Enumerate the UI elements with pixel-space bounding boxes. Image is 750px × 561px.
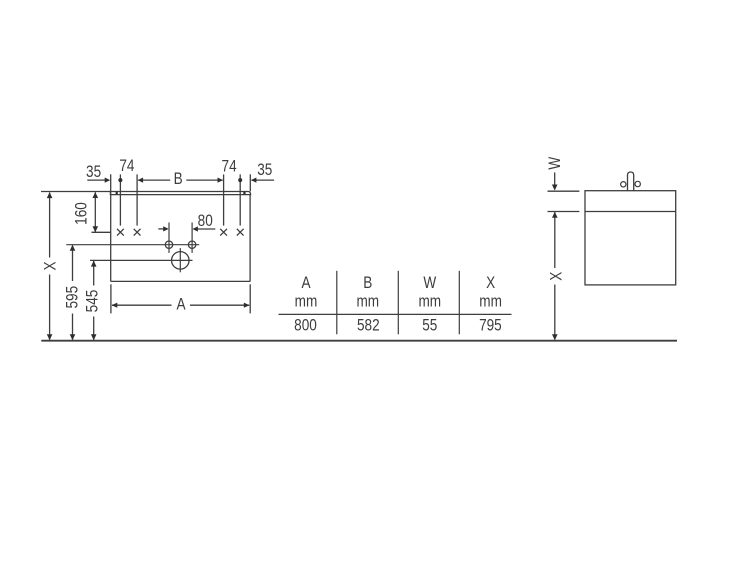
faucet hole centerline right [191, 223, 193, 253]
svg-text:160: 160 [72, 202, 91, 225]
cabinet bottom [111, 280, 251, 282]
dim A right arrow [244, 303, 250, 308]
dim 35 left line [87, 179, 106, 181]
svg-text:35: 35 [86, 162, 101, 181]
dim 80 right line [197, 228, 216, 230]
dim 545 bottom arrow [91, 334, 97, 340]
table divider 2 [397, 271, 399, 335]
dim 595 line lower [72, 314, 74, 340]
svg-text:A: A [176, 295, 186, 314]
svg-text:B: B [174, 170, 183, 189]
svg-text:W: W [546, 156, 565, 169]
dim X right top arrow [552, 212, 558, 218]
fixing bolt line 3 [223, 174, 225, 225]
dim 545 line upper [93, 261, 95, 286]
svg-text:mm: mm [295, 292, 318, 311]
dim W line [554, 172, 556, 186]
svg-text:795: 795 [479, 316, 502, 335]
dim A left extension [110, 284, 112, 313]
dim 160 bottom tick [92, 231, 112, 233]
fixing cross 3 [220, 229, 227, 236]
svg-text:800: 800 [294, 316, 317, 335]
dim A left arrow [112, 303, 118, 308]
dim 160 bottom arrow [93, 226, 99, 232]
right bracket mark [243, 192, 245, 195]
dim 80 left line [158, 228, 164, 230]
dim A right extension [249, 284, 251, 313]
side view cabinet [585, 191, 676, 285]
fixing cross 1 [117, 229, 124, 236]
cabinet right edge + extension [249, 174, 251, 191]
table divider 3 [458, 271, 460, 335]
svg-text:55: 55 [422, 316, 437, 335]
svg-text:mm: mm [479, 292, 502, 311]
faucet body [628, 172, 634, 191]
faucet handle left [621, 182, 626, 187]
table header rule [279, 313, 512, 315]
dim 35 right arrow [251, 178, 257, 183]
side view divider extension line [548, 211, 580, 213]
dim X left bottom arrow [47, 334, 53, 340]
drain hole [172, 252, 190, 270]
cabinet left edge + extension [110, 174, 112, 281]
svg-text:582: 582 [357, 316, 380, 335]
svg-text:W: W [423, 274, 436, 293]
dim B line right segment [186, 179, 222, 181]
dim X left top arrow [47, 192, 53, 198]
svg-text:35: 35 [257, 161, 272, 180]
svg-text:74: 74 [119, 157, 135, 176]
svg-text:545: 545 [83, 290, 102, 313]
svg-text:A: A [301, 274, 311, 293]
extension line through faucet holes (595 reference) [66, 244, 199, 246]
svg-text:B: B [363, 274, 372, 293]
svg-text:X: X [41, 261, 60, 270]
svg-text:X: X [486, 274, 495, 293]
cabinet top slab (front view, extends left to X dimension) [41, 192, 251, 195]
dim 35 left arrow [105, 178, 111, 183]
dim 160 top arrow [93, 192, 99, 198]
dim 80 right arrow [192, 226, 198, 231]
dim B right arrow [218, 178, 224, 183]
dim B line left segment [138, 179, 170, 181]
fixing bolt line 1 [119, 174, 121, 225]
left bracket mark [116, 192, 118, 195]
svg-text:mm: mm [418, 292, 441, 311]
dim B left arrow [138, 178, 144, 183]
dim 545 top arrow [91, 261, 97, 267]
dim X left line lower [49, 275, 51, 340]
extension line through drain (545 reference) [90, 259, 193, 261]
dim 80 left arrow [163, 226, 169, 231]
dim X left line upper [49, 193, 51, 258]
floor line [41, 340, 677, 342]
svg-text:X: X [547, 272, 566, 281]
dim X right line upper [554, 212, 556, 268]
faucet handle right [635, 181, 640, 186]
svg-text:595: 595 [63, 286, 82, 309]
svg-text:mm: mm [356, 292, 379, 311]
fixing bolt line 4 [239, 174, 241, 225]
dim 35 right line [252, 179, 275, 181]
dim 160 line [94, 192, 96, 232]
svg-text:74: 74 [222, 157, 238, 176]
dim A line right segment [190, 304, 249, 306]
fixing cross 4 [237, 229, 244, 236]
dim A line left segment [112, 304, 172, 306]
dim X right line lower [554, 285, 556, 340]
side view top extension line [548, 190, 580, 192]
dim 595 top arrow [70, 245, 76, 251]
fixing bolt line 2 [136, 174, 138, 225]
dim 595 line upper [72, 245, 74, 281]
drain hole vertical centerline [179, 248, 181, 272]
fixing cross 2 [134, 229, 141, 236]
dimension dot right 74 [238, 178, 242, 182]
faucet hole right [188, 241, 195, 248]
faucet hole centerline left [168, 223, 170, 253]
table divider 1 [336, 271, 338, 335]
svg-text:80: 80 [198, 212, 213, 231]
side view washbasin/cabinet divider [585, 211, 676, 213]
dim X right bottom arrow [552, 334, 558, 340]
faucet hole left [165, 241, 172, 248]
dim 545 line lower [93, 317, 95, 340]
dim W arrow [552, 185, 558, 191]
dimension dot left 74 [118, 178, 122, 182]
dim 595 bottom arrow [70, 334, 76, 340]
